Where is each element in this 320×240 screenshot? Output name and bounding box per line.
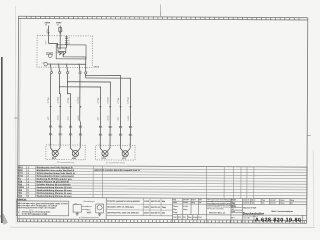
svg-text:0.75gr: 0.75gr — [98, 97, 100, 103]
svg-text:Bearb.: Bearb. — [173, 206, 179, 208]
svg-text:0.75gr: 0.75gr — [118, 98, 120, 104]
border frame top ruler ticks — [26, 17, 303, 18]
border frame left line — [18, 16, 19, 222]
wire W1 supply left — [47, 25, 49, 43]
svg-text:Steckverbindung Klemme 30 vorn: Steckverbindung Klemme 30 vorn — [36, 186, 72, 189]
wire R1 lower — [99, 91, 101, 148]
symbol legend relay box — [73, 203, 81, 215]
svg-text:Fre: Fre — [262, 202, 265, 204]
svg-text:0.75gr: 0.75gr — [68, 97, 70, 103]
lamp E2a — [100, 148, 110, 160]
svg-text:Mei: Mei — [162, 201, 166, 203]
svg-text:Druckschalter: Druckschalter — [243, 212, 265, 216]
pin numbers at lamp box 1 — [50, 143, 131, 145]
svg-text:Sicherung Kl.15 (8A) peripher: Sicherung Kl.15 (8A) peripher ges. — [37, 178, 73, 181]
svg-text:30: 30 — [45, 24, 47, 26]
scan right shadow line — [312, 150, 314, 226]
svg-text:K19: K19 — [18, 181, 23, 183]
fold mark right edge — [307, 135, 311, 137]
svg-text:3: 3 — [52, 134, 53, 136]
node dot relay — [63, 54, 64, 55]
pin circle P4 — [79, 72, 81, 74]
contact slant P1 — [50, 64, 51, 71]
svg-text:0.75sw: 0.75sw — [57, 96, 59, 103]
pin stack connector X1 — [65, 36, 70, 45]
border frame bottom ruler ticks — [19, 220, 305, 221]
wire feed R4 — [86, 78, 131, 92]
wire from P5 — [85, 74, 87, 78]
node dot W2 — [60, 47, 61, 48]
svg-text:20.9.97: 20.9.97 — [270, 200, 275, 202]
wire color labels row 1 — [48, 96, 130, 103]
wire R4 lower — [129, 92, 131, 149]
terminal label 30 right — [56, 22, 62, 26]
svg-text:Vorderteil, geänderte Leitung: Vorderteil, geänderte Leitung geändert — [107, 200, 140, 203]
wire L2 lower — [59, 87, 60, 148]
contact slant P4 — [79, 64, 80, 71]
svg-text:an der Befestigungen erfolgt: an der Befestigungen erfolgt — [22, 213, 48, 216]
svg-text:Meier: Meier — [251, 200, 256, 202]
svg-text:5: 5 — [27, 193, 29, 195]
wire color labels row 2 — [48, 115, 130, 120]
svg-text:0.75gr: 0.75gr — [48, 97, 50, 103]
svg-text:F1: F1 — [18, 178, 21, 180]
svg-text:Urspr: Urspr — [193, 217, 198, 219]
svg-text:Darstellung in: Darstellung in — [83, 200, 95, 203]
svg-text:Bearb: Bearb — [232, 199, 237, 201]
note text lines — [17, 202, 68, 216]
svg-text:3: 3 — [102, 134, 103, 136]
svg-text:2: 2 — [112, 127, 113, 129]
svg-text:4: 4 — [82, 134, 83, 136]
fuse F1 on W2 — [59, 27, 62, 31]
relay internal wire — [65, 45, 67, 48]
svg-text:960 159 07: 960 159 07 — [151, 212, 160, 214]
svg-text:5: 5 — [27, 190, 29, 192]
svg-text:1: 1 — [52, 126, 53, 128]
svg-text:gr/bl: gr/bl — [68, 116, 70, 120]
svg-text:6: 6 — [87, 71, 88, 73]
relay contact 2 — [63, 52, 66, 55]
bus bar inside switch unit — [48, 63, 86, 65]
svg-text:Relais Klemme 15 geschaltet B: Relais Klemme 15 geschaltet B — [37, 180, 70, 183]
wire L3 lower — [67, 82, 71, 148]
svg-text:Nam: Nam — [188, 217, 192, 219]
svg-text:Norm: Norm — [183, 209, 188, 211]
connector tiny labels — [52, 126, 133, 136]
svg-text:Norm: Norm — [280, 203, 285, 205]
lamp E1a — [50, 148, 60, 160]
svg-text:2: 2 — [99, 144, 100, 146]
svg-text:gr/bl: gr/bl — [118, 116, 120, 120]
lamp E1b — [70, 148, 80, 160]
relay internal wire 2 — [63, 52, 86, 57]
scan left paper edge — [0, 57, 8, 225]
svg-text:4: 4 — [112, 134, 113, 136]
svg-text:4: 4 — [62, 134, 63, 136]
wire feed R2 — [67, 82, 110, 92]
svg-text:1: 1 — [52, 71, 53, 73]
legend rows text — [18, 166, 75, 198]
revision row 1 — [107, 200, 166, 203]
svg-text:E6/1: E6/1 — [52, 158, 57, 160]
svg-text:Masse: Masse — [87, 212, 92, 214]
svg-text:Gepr: Gepr — [173, 202, 177, 204]
svg-text:Baumuster 628: Baumuster 628 — [243, 206, 256, 209]
property note text — [207, 198, 236, 214]
svg-text:1: 1 — [28, 167, 30, 169]
pin circle P1 — [50, 72, 52, 74]
border frame bottom outer line — [18, 222, 307, 224]
svg-text:Tag: Tag — [262, 200, 265, 202]
svg-text:0.75sw: 0.75sw — [78, 96, 80, 103]
svg-text:2: 2 — [61, 71, 62, 73]
svg-text:960 754 02: 960 754 02 — [151, 206, 160, 209]
svg-text:20.06.97: 20.06.97 — [243, 199, 249, 201]
pin circle P2 — [58, 72, 60, 74]
revision row 2 — [107, 205, 166, 208]
lamp E2b — [120, 148, 130, 160]
svg-text:Blinkleuchte vorn links Nachla: Blinkleuchte vorn links Nachlauf B — [37, 166, 73, 169]
svg-text:A 628 820 19 80: A 628 820 19 80 — [255, 217, 301, 223]
svg-text:X58: X58 — [18, 190, 23, 192]
svg-text:Blinkleuchte vorn rechts Nachl: Blinkleuchte vorn rechts Nachlauf B — [37, 169, 75, 172]
svg-text:4: 4 — [132, 135, 133, 137]
symbol legend lamp box — [96, 204, 104, 216]
svg-text:Haas: Haas — [251, 202, 255, 204]
svg-text:sw/ws: sw/ws — [78, 115, 80, 120]
wire feed R3 — [86, 75, 121, 91]
svg-text:Bl. 1: Bl. 1 — [232, 217, 235, 219]
svg-text:●: ● — [18, 212, 19, 214]
svg-text:2: 2 — [28, 173, 30, 175]
wire L3 from P3 — [66, 74, 68, 82]
svg-text:E6/1: E6/1 — [18, 167, 23, 169]
svg-text:1: 1 — [304, 218, 305, 220]
svg-text:Hu: Hu — [291, 203, 293, 205]
svg-text:E7 Leuchteinheit rechts: E7 Leuchteinheit rechts — [106, 161, 125, 164]
relay coil — [58, 48, 66, 52]
wire L4 — [79, 74, 82, 148]
svg-text:GM4 20-21 Zylinder-Baureih: GM4 20-21 Zylinder-Baureihe komplett Aus… — [94, 169, 140, 172]
svg-text:Verbindten 18/31 bis 18/38 daz: Verbindten 18/31 bis 18/38 dazu — [107, 205, 134, 208]
svg-text:X31: X31 — [18, 193, 23, 195]
lamp unit E1 dashed box — [46, 145, 85, 160]
svg-text:Hu: Hu — [199, 202, 201, 204]
svg-text:1:1: 1:1 — [232, 209, 234, 211]
svg-text:sw/ws: sw/ws — [128, 116, 130, 121]
node dot bus P3 — [66, 64, 67, 65]
svg-text:Kontakt: Kontakt — [87, 205, 93, 208]
svg-text:3: 3 — [72, 134, 73, 136]
node dot bus P4 — [79, 64, 80, 65]
relay K body rectangle — [56, 45, 86, 59]
node dot L2 split — [59, 86, 60, 87]
connector arrow on W1 — [47, 32, 49, 34]
revision table lines — [106, 198, 173, 216]
connector arrows mid row — [49, 106, 131, 108]
svg-text:Schlussleuchte hinten rechts N: Schlussleuchte hinten rechts Nachl. — [37, 175, 75, 178]
switch unit S dashed outline box — [37, 36, 92, 68]
svg-text:1: 1 — [102, 127, 103, 129]
svg-text:2: 2 — [132, 127, 133, 129]
svg-text:K19: K19 — [47, 53, 50, 55]
section divider revision left — [105, 198, 107, 220]
svg-text:1: 1 — [28, 170, 30, 172]
relay contact 1 — [59, 52, 62, 55]
node dot bus P2 — [58, 64, 59, 65]
section divider title block left — [172, 198, 174, 222]
fold mark left edge — [14, 117, 18, 119]
connector arrow on W2 — [59, 32, 61, 34]
svg-text:sw/ws: sw/ws — [57, 115, 59, 120]
svg-text:54g: 54g — [74, 203, 77, 205]
svg-text:Spule: Spule — [87, 209, 91, 211]
legend table column lines — [25, 166, 27, 198]
svg-text:5: 5 — [81, 71, 82, 73]
pin circle P3 — [66, 72, 68, 74]
border frame inner top line — [18, 18, 307, 20]
svg-text:gr/bl: gr/bl — [48, 116, 50, 120]
inline connector pair top row — [49, 126, 131, 128]
border frame bottom inner line — [18, 219, 307, 221]
svg-text:Name: Name — [280, 200, 284, 202]
pin circle P5 — [85, 72, 87, 74]
title block grid — [173, 198, 307, 223]
svg-text:58: 58 — [68, 43, 70, 45]
svg-text:2: 2 — [28, 176, 30, 178]
designation bubble K — [46, 53, 52, 58]
wire feed R1 — [59, 87, 100, 92]
svg-text:2: 2 — [82, 127, 83, 129]
svg-text:3: 3 — [28, 179, 30, 181]
wire R3 lower — [119, 92, 121, 149]
wire W2 supply right — [59, 26, 61, 45]
svg-text:Löa: Löa — [42, 62, 45, 64]
title block right texts — [232, 199, 294, 219]
legend table outer box — [18, 166, 307, 199]
node dot L3 split — [67, 81, 68, 82]
svg-text:Wag: Wag — [192, 202, 195, 204]
legend table row lines — [18, 168, 307, 170]
svg-text:E6 Leuchteinheit links: E6 Leuchteinheit links — [57, 161, 75, 164]
svg-text:4: 4 — [59, 143, 60, 145]
svg-text:E6/2: E6/2 — [18, 170, 23, 172]
svg-text:2: 2 — [62, 126, 63, 128]
node dot P5 split — [85, 75, 86, 76]
svg-text:SRB5: SRB5 — [93, 67, 100, 69]
wire W2 into relay — [59, 45, 61, 50]
svg-text:X30/4: X30/4 — [18, 186, 25, 189]
svg-text:Dat: Dat — [183, 216, 186, 219]
svg-text:Schlussleuchte hinten links Na: Schlussleuchte hinten links Nachl. B — [37, 172, 76, 175]
relay to bus wire — [85, 57, 87, 72]
svg-text:E7/1: E7/1 — [18, 173, 23, 175]
svg-text:Steckverbindung Klemme 15 vorn: Steckverbindung Klemme 15 vorn — [36, 195, 72, 198]
svg-text:15: 15 — [57, 24, 59, 26]
svg-text:Leerstring 43/91, 43/43 und 43: Leerstring 43/91, 43/43 und 43/46 ges. — [107, 211, 140, 214]
svg-text:Name: Name — [192, 199, 196, 201]
border frame right line — [307, 18, 308, 224]
revision row 3 — [107, 211, 166, 214]
svg-text:Gepr.: Gepr. — [173, 209, 178, 211]
svg-text:Wag: Wag — [291, 200, 294, 202]
svg-text:J0607: J0607 — [144, 212, 149, 214]
svg-text:sw/ws: sw/ws — [107, 115, 109, 120]
svg-text:Ers.f: Ers.f — [198, 217, 202, 219]
svg-text:3: 3 — [69, 71, 70, 73]
designation bubble K2 — [42, 62, 48, 66]
symbol legend tiny labels — [79, 205, 99, 219]
svg-text:Steckverbindung Klemme 58 vorn: Steckverbindung Klemme 58 vorn — [36, 189, 72, 192]
contact slant P2 — [59, 64, 60, 71]
relay internal stub — [59, 52, 61, 55]
svg-text:0.75: 0.75 — [45, 41, 47, 45]
svg-text:4: 4 — [109, 144, 110, 146]
svg-text:Zust: Zust — [173, 216, 177, 219]
svg-text:1: 1 — [122, 127, 123, 129]
svg-text:4.8.94: 4.8.94 — [183, 205, 188, 208]
svg-text:J1305: J1305 — [144, 201, 149, 203]
terminal label 30 left — [45, 21, 51, 26]
node dot bus P1 — [50, 64, 51, 65]
svg-text:Steckverbindung Klemme 31 vorn: Steckverbindung Klemme 31 vorn — [36, 192, 72, 195]
fold mark top center — [160, 11, 162, 17]
relay internal dot — [60, 51, 61, 52]
svg-text:Änd: Änd — [178, 216, 181, 219]
svg-text:Freig.: Freig. — [173, 212, 178, 214]
relay internal stub 2 — [57, 52, 59, 54]
svg-text:Schalter Klemme 58 Leuchtweite: Schalter Klemme 58 Leuchtweite — [37, 183, 72, 186]
svg-text:Wag: Wag — [162, 207, 166, 209]
svg-text:Gepr: Gepr — [232, 202, 236, 204]
svg-text:Mei: Mei — [162, 213, 166, 215]
scan bottom paper edge line — [10, 226, 315, 228]
contact slant P3 — [67, 64, 68, 71]
wire W1 elbow into relay — [48, 43, 57, 47]
note box — [16, 201, 68, 216]
inline connector pair bottom row — [49, 134, 131, 136]
svg-text:22.9.97: 22.9.97 — [270, 203, 275, 205]
svg-text:Mei: Mei — [199, 199, 202, 201]
scan left inner shadow line — [14, 6, 17, 224]
border frame outer top line — [18, 16, 307, 18]
svg-text:3: 3 — [122, 135, 123, 137]
svg-text:2: 2 — [50, 143, 51, 145]
svg-text:E7/1: E7/1 — [102, 158, 107, 160]
svg-text:Tag: Tag — [173, 199, 176, 201]
wire L1 — [49, 74, 51, 148]
lamp unit E2 dashed box — [96, 145, 135, 160]
svg-text:960 753 05: 960 753 05 — [151, 201, 160, 203]
svg-text:Mercedes-Benz AG: Mercedes-Benz AG — [209, 211, 226, 214]
svg-text:S16: S16 — [18, 184, 23, 186]
svg-text:0.75sw: 0.75sw — [107, 97, 109, 104]
border frame left inner line — [19, 19, 20, 219]
svg-text:21.06.97: 21.06.97 — [243, 202, 249, 204]
svg-text:Elektr. Gesamtschaltplan: Elektr. Gesamtschaltplan — [271, 210, 292, 213]
svg-text:im Ruhezustand gezeichnet: im Ruhezustand gezeichnet — [79, 216, 99, 219]
svg-text:gr/bl: gr/bl — [98, 116, 100, 120]
svg-text:J0406: J0406 — [144, 206, 149, 209]
svg-text:3: 3 — [28, 181, 30, 183]
pin labels under switch unit — [52, 71, 87, 73]
svg-text:0.75sw: 0.75sw — [128, 97, 130, 104]
svg-text:1: 1 — [72, 126, 73, 128]
symbol legend pointer lines — [82, 206, 91, 212]
wire R2 lower — [109, 91, 111, 148]
wire L2 from P2 — [58, 74, 60, 87]
svg-text:E7/2: E7/2 — [18, 176, 23, 178]
svg-text:20.4.94: 20.4.94 — [183, 198, 188, 201]
svg-text:Zeichnung gezeichnet entspr. d: Zeichnung gezeichnet entspr. den Vorgabe — [17, 206, 55, 209]
title block small texts left — [173, 198, 202, 219]
